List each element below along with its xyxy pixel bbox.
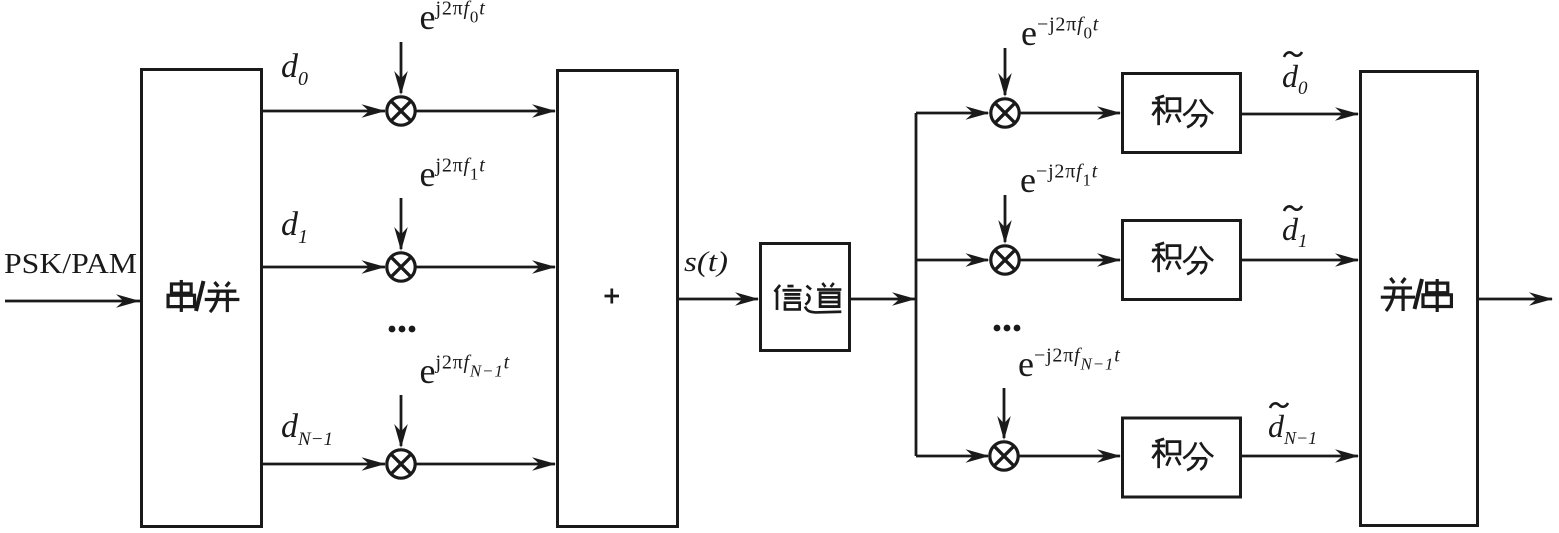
wire row1 right: bus to demult	[916, 112, 988, 115]
wire row1 left: block to multiplier	[263, 110, 385, 113]
wire integrator1 to P/S	[1242, 113, 1358, 116]
wire M3 to summer	[417, 463, 556, 466]
summer plus sign	[605, 289, 620, 304]
integrator block 3 (jifen)	[1123, 418, 1241, 497]
channel block (xindao)	[761, 244, 850, 351]
carrier arrow into M6	[1003, 388, 1006, 438]
ellipsis left	[389, 326, 416, 333]
svg-text:s(t): s(t)	[684, 246, 728, 278]
wire M6 to integrator 3	[1020, 455, 1121, 458]
carrier arrow into M4	[1004, 48, 1007, 95]
multiplier M2	[387, 253, 415, 281]
summer block	[558, 71, 678, 527]
multiplier M5	[991, 246, 1019, 274]
svg-text:ej2πf0t: ej2πf0t	[420, 0, 486, 37]
svg-text:e−j2πf0t: e−j2πf0t	[1021, 13, 1099, 53]
parallel/serial block (bing/chuan)	[1361, 72, 1478, 526]
input wire	[5, 300, 140, 303]
wire integrator3 to P/S	[1242, 455, 1358, 458]
splitter bus wire	[915, 113, 918, 456]
serial/parallel block (chuan/bing)	[142, 70, 262, 527]
svg-text:e−j2πf1t: e−j2πf1t	[1020, 160, 1098, 200]
wire integrator2 to P/S	[1242, 259, 1358, 262]
integrator block 1 (jifen)	[1123, 74, 1241, 153]
carrier arrow into M1	[400, 42, 403, 93]
svg-text:ej2πf1t: ej2πf1t	[420, 154, 486, 194]
node d~1 label	[1284, 206, 1302, 211]
wire M1 to summer	[417, 110, 556, 113]
integrator block 2 (jifen)	[1123, 221, 1241, 300]
ellipsis right	[994, 325, 1021, 332]
carrier arrow into M5	[1004, 195, 1007, 242]
wire M5 to integrator 2	[1021, 259, 1121, 262]
label chuan/bing text	[168, 280, 239, 312]
multiplier M6	[990, 442, 1018, 470]
svg-text:PSK/PAM: PSK/PAM	[4, 249, 137, 280]
svg-text:e−j2πfN−1t: e−j2πfN−1t	[1018, 344, 1121, 384]
svg-text:dN−1: dN−1	[281, 408, 333, 450]
wire M2 to summer	[417, 266, 556, 269]
multiplier M1	[387, 97, 415, 125]
multiplier M4	[991, 99, 1019, 127]
svg-text:dN−1: dN−1	[1268, 408, 1317, 448]
svg-text:d0: d0	[1282, 58, 1308, 99]
output wire	[1479, 298, 1553, 301]
carrier arrow into M2	[400, 198, 403, 249]
multiplier M3	[387, 450, 415, 478]
svg-text:d0: d0	[281, 48, 308, 90]
wire row3 left	[263, 463, 385, 466]
wire row2 left	[263, 266, 385, 269]
wire row3 right	[916, 455, 988, 458]
wire channel to splitter node	[851, 298, 915, 301]
wire summer to channel	[679, 298, 758, 301]
node d~0 label	[1284, 52, 1302, 57]
svg-text:d1: d1	[281, 206, 308, 248]
svg-text:ej2πfN−1t: ej2πfN−1t	[420, 351, 510, 391]
wire row2 right	[916, 259, 988, 262]
svg-text:d1: d1	[1282, 211, 1308, 252]
node d~N-1 label	[1270, 403, 1288, 408]
wire M4 to integrator 1	[1021, 112, 1121, 115]
carrier arrow into M3	[400, 395, 403, 446]
